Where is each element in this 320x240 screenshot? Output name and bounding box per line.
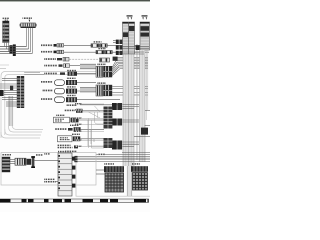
faint line left edge	[0, 65, 9, 68]
connector block A (hatched stack)	[3, 21, 9, 43]
connector pair on band at y140-150	[112, 141, 122, 150]
row B component box	[54, 117, 70, 123]
wire at y136	[134, 136, 150, 138]
row A connector	[76, 109, 83, 113]
relay connector R2 (mating pair)	[96, 85, 112, 96]
row 4 wire	[70, 65, 81, 67]
row 6 fuse pill	[55, 80, 65, 86]
row 7 label above connector	[67, 86, 76, 87]
row 1 wire	[64, 45, 94, 47]
fuse F1 vertical	[31, 156, 35, 168]
row C component	[68, 127, 81, 132]
row 8 connector	[66, 97, 77, 102]
row C label above	[70, 125, 79, 126]
wires from BL to connector C1	[10, 160, 15, 164]
row 8 label above connector	[67, 95, 76, 96]
wires at y104-108	[122, 105, 150, 111]
row B label above	[56, 115, 65, 116]
left wire group 3	[4, 91, 17, 95]
row 1 connector	[54, 44, 64, 47]
wire below row 8	[80, 104, 120, 106]
row 6 label	[41, 81, 53, 83]
wire label to stack M	[56, 181, 58, 183]
row B wire	[79, 119, 105, 121]
wires from connector B down to bus	[27, 28, 33, 54]
label above bus	[98, 154, 105, 156]
bus wires (left)	[0, 47, 33, 54]
harness bundle corner lines (nested)	[1, 96, 43, 138]
row 1 label above mid connector	[94, 41, 102, 42]
row 6 wire	[77, 81, 96, 83]
stack S2 top arrow	[142, 15, 148, 20]
bus wire top	[122, 151, 150, 153]
row 5 label above connector	[67, 70, 76, 71]
row 5 label	[44, 73, 57, 75]
band right of S1 continuing to bottom	[127, 166, 132, 196]
thin verticals between bands	[137, 44, 138, 160]
row 7 fuse pill	[55, 88, 65, 94]
row 2 label	[41, 51, 53, 53]
stack M (mid-bottom ladder)	[58, 153, 75, 196]
row 8 label	[41, 98, 53, 100]
label above stack M	[58, 151, 71, 153]
label above block BL	[2, 154, 11, 156]
long bus wires bottom	[74, 157, 150, 159]
top scan border	[0, 0, 150, 1]
row D component box	[58, 136, 73, 142]
bus wire upper	[96, 154, 150, 156]
arrow into connector B	[29, 20, 31, 23]
relay connector R1 (mating pair)	[96, 66, 112, 77]
label above junction block J2	[131, 163, 140, 165]
row 4 label	[44, 65, 57, 67]
connector pair on band at y118-126	[112, 119, 122, 126]
hatch wires right upper	[113, 57, 148, 59]
stack S1 lower band	[123, 54, 134, 166]
junction block J1 body (checkered)	[105, 173, 124, 192]
row C label	[55, 128, 67, 130]
row 3 label	[44, 58, 56, 60]
wires at y120-125	[122, 120, 150, 126]
row 2 wire right	[112, 51, 149, 53]
page background	[0, 0, 150, 212]
stack S2 lower band	[140, 50, 146, 162]
footer scale bar	[0, 199, 149, 202]
row 7 connector	[66, 89, 77, 94]
row 3 component	[57, 57, 69, 61]
row 1 label	[41, 44, 53, 46]
connector pair on S1 at y41	[116, 40, 123, 44]
vertical band inside left box	[9, 96, 13, 126]
dense connector column right-mid	[104, 107, 113, 129]
row B connector	[71, 118, 79, 123]
row 3 terminus connector	[100, 58, 110, 62]
connector pair between stacks at y47	[136, 45, 140, 50]
connector marks on bus left	[75, 156, 78, 162]
stack S1 top arrow	[127, 15, 133, 20]
row 2 wire	[64, 51, 98, 53]
connector pair on S1 at y47	[116, 45, 123, 49]
left wire group 2	[0, 84, 17, 88]
row D connector	[73, 136, 81, 141]
connector column (left box)	[17, 76, 24, 108]
label above connector B	[23, 17, 33, 19]
connector block BL (hatched)	[2, 157, 10, 172]
wire exiting connector column right	[24, 73, 44, 75]
label above connector block A	[3, 18, 9, 21]
grommet G2 on bus	[13, 44, 16, 56]
row 3 wire	[69, 58, 98, 60]
row 7 label	[42, 90, 53, 92]
row 7 wire	[77, 90, 96, 92]
small connector cells left of hatch	[113, 57, 118, 61]
bundle band into R2	[80, 87, 96, 92]
left wire group 5	[6, 102, 17, 106]
row 1 mid connector pair	[91, 44, 107, 47]
bottom-mid enclosure line	[76, 162, 150, 196]
row 6 connector	[66, 80, 77, 85]
label above R1	[97, 64, 106, 66]
row 4 bundle band	[80, 64, 96, 69]
connector pair on S1 at y52	[116, 51, 123, 55]
label left of stack M	[44, 179, 56, 183]
row 6 label above connector	[67, 78, 76, 79]
wires at y142-148	[122, 142, 139, 146]
row 5 connector	[60, 72, 77, 76]
row E label two lines	[58, 145, 73, 149]
connector block right edge at y128	[141, 128, 148, 135]
left wire group 4	[2, 98, 17, 100]
stack S2 (ladder)	[140, 22, 150, 50]
row 2 mid connector pair	[96, 50, 112, 53]
connector B (multi-pin)	[20, 23, 37, 28]
label below row 8	[66, 104, 77, 106]
row E marks	[74, 145, 78, 148]
row 8 fuse pill	[55, 97, 65, 103]
splice block on left edge	[0, 90, 4, 96]
mid rows lower: row A label	[64, 110, 75, 112]
row 5 wire	[77, 73, 96, 75]
wires exiting J1 left	[96, 170, 105, 174]
row C wire	[81, 129, 104, 131]
left wire group 1	[2, 79, 17, 81]
junction block J2 body (checkered)	[133, 173, 148, 190]
right-mid labels and wires	[75, 103, 82, 147]
connector C1	[15, 158, 26, 165]
wires right from R2	[112, 86, 148, 95]
row A wire	[83, 110, 105, 112]
wires fanning right from R1	[112, 61, 148, 76]
row D wire	[80, 138, 104, 140]
small block on wires	[10, 86, 13, 91]
label right of F1	[36, 154, 44, 156]
row wires jogging down (bottom-mid)	[88, 120, 94, 146]
small label left of enclosure row	[44, 153, 50, 154]
connector pair on band at y103-110	[112, 103, 122, 110]
wires crossing at y52-54	[122, 52, 144, 54]
connector pair below column	[104, 138, 113, 148]
wire from F1 to stack M	[35, 159, 59, 161]
connector C2	[27, 159, 32, 165]
harness outline box (large, left)	[1, 72, 113, 139]
row 4 component	[59, 64, 70, 68]
label above R2	[97, 82, 106, 84]
label below row E	[65, 151, 77, 153]
stack S1 (tall ladder)	[123, 22, 135, 54]
thin verticals right of S2	[147, 50, 148, 120]
wires crossing at y46-50	[122, 46, 149, 48]
row 2 connector	[54, 50, 64, 53]
wires into S1 at y41	[113, 41, 116, 43]
right-mid mesh wires	[82, 104, 104, 148]
grommet G1 on bus	[9, 45, 12, 54]
row 2 label above mid connector	[98, 48, 106, 49]
row D label above connector	[72, 134, 80, 135]
junction block J2 top strip	[131, 166, 148, 172]
junction block J1 top strip	[104, 166, 124, 172]
bus wire short	[74, 160, 150, 162]
row 8 wire	[77, 99, 120, 101]
wires from block A down to bus	[5, 43, 9, 52]
row 1 wire right	[107, 45, 149, 47]
bottom-left enclosure box	[1, 153, 96, 185]
label above junction block J1	[104, 163, 114, 165]
